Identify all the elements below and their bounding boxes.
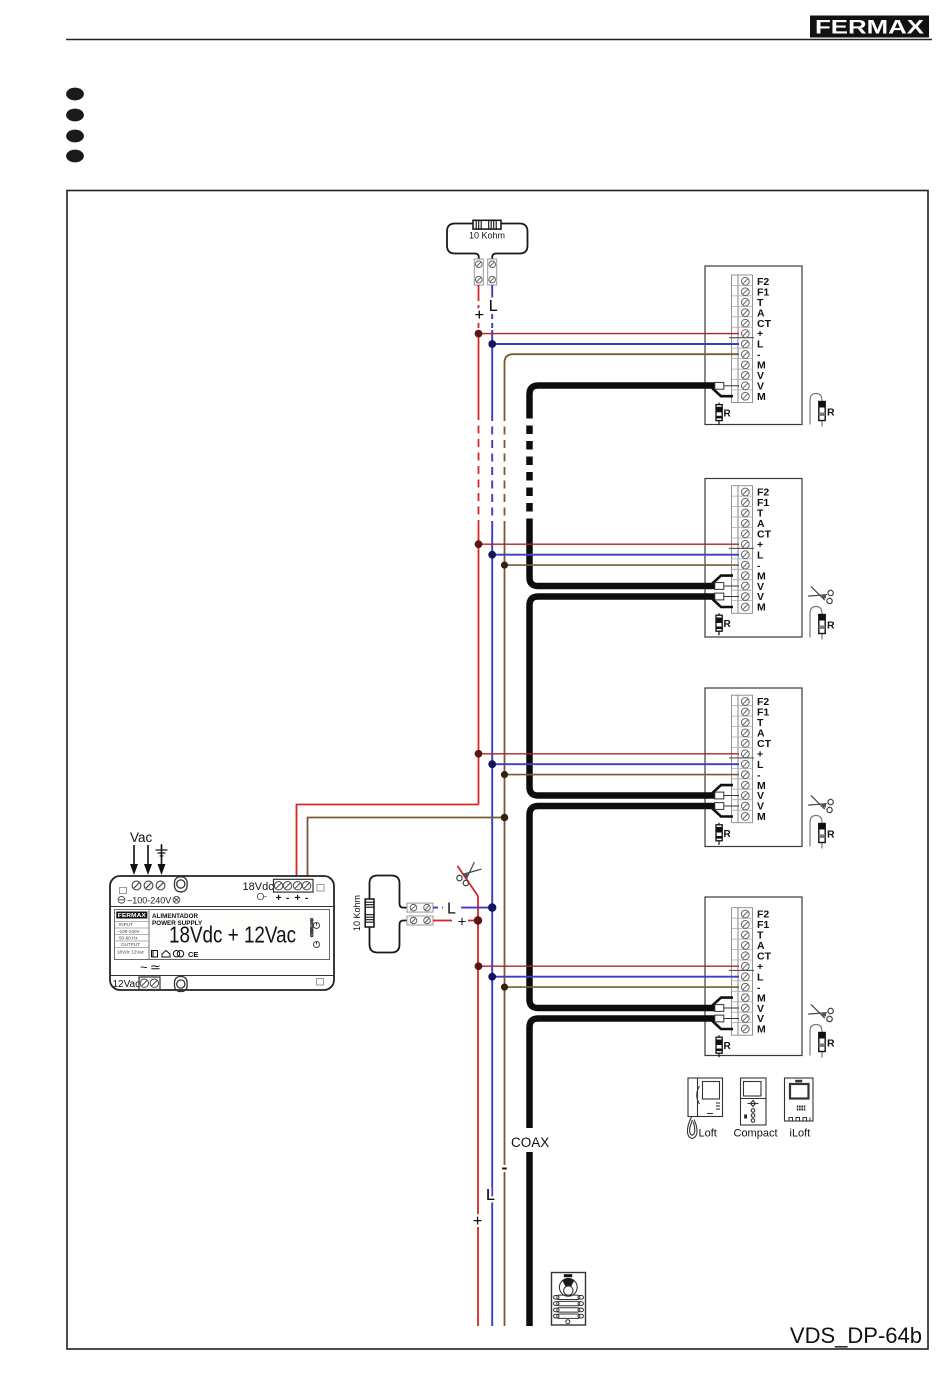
psu mounting tab left — [120, 888, 127, 894]
monitor Compact — [741, 1078, 767, 1125]
power supply unit outline — [110, 876, 334, 990]
resistor 10 Kohm symbol (top) — [473, 220, 501, 229]
terminal connector L (top right) — [488, 259, 497, 285]
wire: red branch to + of unit 3 — [479, 753, 740, 755]
coax inner conductor connector — [724, 385, 739, 387]
coax braid wire to M terminal — [712, 808, 733, 816]
coax inner conductor connector — [724, 805, 739, 807]
wire: red cut stub (diagonal) — [458, 866, 479, 896]
psu separator line — [110, 906, 334, 908]
monitor/phone unit box 1 — [705, 266, 802, 425]
svg-text:50-60 Hz: 50-60 Hz — [119, 935, 138, 940]
svg-text:-: - — [305, 892, 309, 904]
psu mounting hole top — [175, 877, 188, 892]
terminal strip of unit 3 — [729, 695, 754, 823]
line-end hook wire at unit 1 — [810, 394, 822, 427]
wire: brown feed from power supply — [308, 818, 505, 880]
junction: blue at unit 2 — [488, 551, 496, 559]
12Vac terminal block — [139, 977, 160, 990]
coax inner conductor connector — [724, 795, 739, 797]
svg-text:ALIMENTADOR: ALIMENTADOR — [152, 913, 199, 920]
svg-text:M: M — [757, 811, 766, 823]
svg-text:M: M — [757, 391, 766, 403]
mains rating row — [118, 896, 180, 903]
psu cert icons — [152, 951, 184, 958]
svg-text:CE: CE — [188, 950, 198, 959]
scissors (cut mark) at unit 3 — [807, 792, 836, 814]
psu mounting hole bottom — [175, 977, 188, 992]
junction: red at unit 4 — [475, 962, 483, 970]
svg-text:~: ~ — [140, 960, 148, 975]
wire: blue L bus — [491, 285, 493, 1326]
coax braid wire to M terminal — [712, 785, 733, 793]
coax inner conductor connector — [724, 585, 739, 587]
earth/ground symbol — [156, 844, 168, 856]
svg-text:FERMAX: FERMAX — [118, 913, 146, 919]
psu spec column — [115, 910, 150, 960]
street door panel — [552, 1273, 586, 1326]
wire: red stub to + bus (lower) — [433, 920, 474, 922]
svg-text:R: R — [724, 829, 732, 840]
terminal strip of unit 4 — [729, 908, 754, 1035]
wire: blue stub to L bus (lower) — [433, 907, 492, 909]
svg-text:R: R — [724, 1041, 732, 1052]
junction: red at unit 2 — [475, 540, 483, 548]
svg-text:OVERLOAD: OVERLOAD — [310, 918, 314, 937]
svg-text:+: + — [458, 914, 467, 931]
junction: brown at unit 3 — [501, 771, 508, 778]
svg-text:+: + — [475, 307, 484, 324]
svg-text:iLoft: iLoft — [790, 1128, 811, 1140]
junction: brown at unit 2 — [501, 562, 508, 569]
svg-text:R: R — [827, 620, 835, 632]
svg-text:M: M — [757, 602, 766, 614]
scissors (cut mark) at unit 4 — [807, 1001, 836, 1023]
monitor/phone unit box 2 — [705, 479, 802, 638]
mains terminal screws — [132, 881, 165, 890]
coax inner conductor connector — [724, 596, 739, 598]
coax run: unit2 to unit3 — [530, 597, 716, 796]
terminal connector + (lower bottom) — [407, 916, 433, 925]
svg-text:VDS_DP-64b: VDS_DP-64b — [790, 1323, 922, 1348]
coax braid wire to M terminal — [712, 388, 733, 396]
small adjust icon — [257, 893, 266, 899]
wire: blue branch to L of unit 2 — [492, 554, 739, 556]
coax braid wire to M terminal — [712, 576, 733, 584]
svg-text:10 Kohm: 10 Kohm — [352, 895, 362, 931]
junction: blue at unit 4 — [488, 973, 496, 981]
wire: brown branch to - of unit 4 — [505, 986, 740, 988]
psu separator line 2 — [110, 975, 334, 977]
wire: blue branch to L of unit 3 — [492, 763, 739, 765]
junction: brown at unit 4 — [501, 984, 508, 991]
bullet list markers — [66, 88, 84, 163]
terminal connector L (lower top) — [407, 903, 433, 912]
18Vdc output terminal block — [274, 879, 314, 892]
resistor R external at unit 1 — [819, 402, 835, 421]
svg-text:-: - — [502, 1158, 508, 1177]
line-end hook wire at unit 4 — [810, 1025, 822, 1058]
svg-text:18Vdc 12Vac: 18Vdc 12Vac — [117, 950, 145, 955]
wire: red branch to + of unit 4 — [479, 965, 740, 967]
svg-text:R: R — [827, 1038, 835, 1050]
junction: brown feed tap — [501, 814, 509, 822]
junction: blue at unit 3 — [488, 760, 496, 768]
header rule — [66, 39, 932, 41]
line-end hook wire at unit 2 — [810, 607, 822, 640]
svg-text:18Vdc: 18Vdc — [243, 881, 275, 893]
junction: red at lower terminator — [474, 916, 482, 924]
monitor/phone unit box 3 — [705, 688, 802, 847]
svg-text:R: R — [827, 407, 835, 419]
monitor Loft — [687, 1078, 722, 1139]
coax inner conductor connector — [724, 1018, 739, 1020]
door panel buttons — [554, 1295, 584, 1324]
polarity labels + - + - — [276, 892, 309, 904]
wire: red feed from power supply — [297, 805, 479, 880]
psu mounting tab right — [317, 885, 324, 892]
line-end hook wire at unit 3 — [810, 816, 822, 849]
10 Kohm terminator loop (lower) — [370, 876, 408, 953]
monitor/phone unit box 4 — [705, 897, 802, 1056]
junction: blue at unit 1 — [488, 340, 496, 348]
resistor R inside unit 2 — [716, 613, 732, 635]
junction: red at unit 3 — [475, 750, 483, 758]
iLoft keypad — [797, 1106, 806, 1111]
svg-text:≃: ≃ — [150, 960, 161, 975]
wire: blue branch to L of unit 4 — [492, 976, 739, 978]
iLoft bottom comb — [786, 1118, 810, 1122]
schematic frame — [67, 191, 928, 1350]
resistor 10 Kohm symbol (lower) — [365, 899, 374, 927]
junction: red at unit 1 — [475, 330, 483, 338]
mains input arrows — [130, 845, 166, 875]
svg-text:Vac: Vac — [130, 830, 153, 845]
svg-text:M: M — [757, 1024, 766, 1036]
svg-text:+: + — [473, 1213, 482, 1230]
terminal strip of unit 2 — [729, 486, 754, 614]
svg-text:-: - — [286, 892, 290, 904]
terminal strip of unit 1 — [729, 275, 754, 403]
psu label plate — [115, 910, 330, 960]
resistor R inside unit 4 — [716, 1035, 732, 1057]
resistor R inside unit 1 — [716, 403, 732, 425]
coax run: unit1 to unit2 (dashed = continues) — [530, 386, 716, 587]
svg-text:+: + — [276, 892, 282, 904]
svg-text:10 Kohm: 10 Kohm — [469, 231, 505, 241]
wire: red branch to + of unit 1 — [479, 333, 740, 335]
svg-text:R: R — [724, 619, 732, 630]
coax braid wire to M terminal — [712, 599, 733, 607]
resistor R external at unit 2 — [819, 615, 835, 634]
wire: red branch to + of unit 2 — [479, 543, 740, 545]
svg-text:+: + — [295, 892, 301, 904]
svg-text:L: L — [489, 298, 498, 315]
10 Kohm terminator loop (top) — [447, 224, 528, 260]
FERMAX logo — [810, 16, 929, 39]
svg-text:Compact: Compact — [734, 1128, 778, 1140]
svg-text:~100-240V: ~100-240V — [117, 929, 141, 934]
coax braid wire to M terminal — [712, 998, 733, 1006]
svg-text:Loft: Loft — [699, 1128, 717, 1140]
svg-text:R: R — [724, 409, 732, 420]
wire: blue branch to L of unit 1 — [492, 343, 739, 345]
resistor R external at unit 4 — [819, 1033, 835, 1052]
scissors cutting + riser — [455, 861, 484, 888]
wire: red + bus upper section — [478, 285, 480, 805]
wire: brown branch to - of unit 3 — [505, 774, 740, 776]
wire: brown - bus — [505, 354, 740, 1326]
svg-text:~100-240V: ~100-240V — [127, 895, 171, 905]
svg-text:12Vac: 12Vac — [113, 979, 141, 990]
monitor iLoft — [785, 1078, 814, 1121]
terminal connector + (top left) — [474, 259, 483, 285]
psu adjust screws right — [310, 918, 320, 948]
svg-text:18Vdc + 12Vac: 18Vdc + 12Vac — [169, 922, 296, 948]
wire: brown branch to - of unit 2 — [505, 564, 740, 566]
coax run: unit4 down to street panel riser — [530, 1019, 716, 1327]
svg-text:INPUT: INPUT — [119, 922, 133, 927]
svg-text:L: L — [486, 1187, 495, 1204]
wire: red + bus lower section — [477, 896, 479, 1326]
svg-text:L: L — [447, 901, 456, 918]
junction: blue at lower terminator — [488, 903, 496, 911]
svg-text:R: R — [827, 829, 835, 841]
coax braid wire to M terminal — [712, 1021, 733, 1029]
svg-text:OUTPUT: OUTPUT — [121, 942, 140, 947]
svg-text:FERMAX: FERMAX — [815, 17, 924, 39]
resistor R external at unit 3 — [819, 824, 835, 843]
coax run: unit3 to unit4 — [530, 806, 716, 1008]
resistor R inside unit 3 — [716, 823, 732, 845]
coax inner conductor connector — [724, 1007, 739, 1009]
scissors (cut mark) at unit 2 — [807, 583, 836, 605]
svg-text:COAX: COAX — [511, 1135, 549, 1150]
psu mounting tab bottom right — [317, 979, 324, 986]
